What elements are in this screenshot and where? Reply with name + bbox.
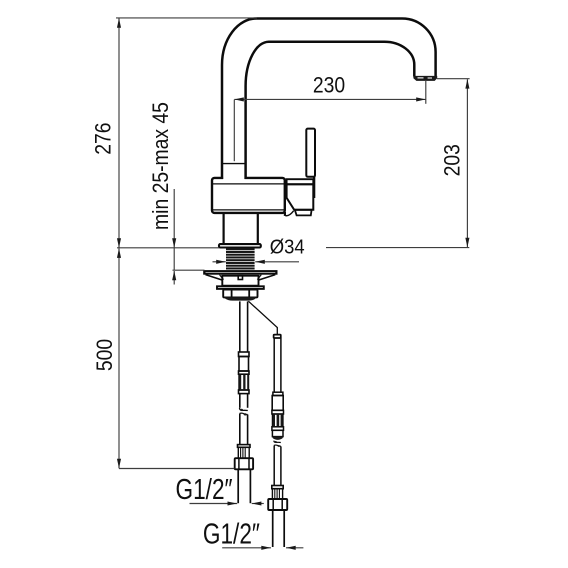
svg-text:min 25-max 45: min 25-max 45 — [149, 102, 174, 230]
svg-text:G1/2″: G1/2″ — [203, 517, 260, 550]
svg-text:230: 230 — [313, 73, 345, 98]
svg-text:500: 500 — [93, 339, 118, 371]
svg-text:Ø34: Ø34 — [270, 236, 305, 259]
svg-text:276: 276 — [91, 122, 116, 154]
svg-text:G1/2″: G1/2″ — [175, 472, 232, 505]
svg-text:203: 203 — [440, 144, 465, 176]
